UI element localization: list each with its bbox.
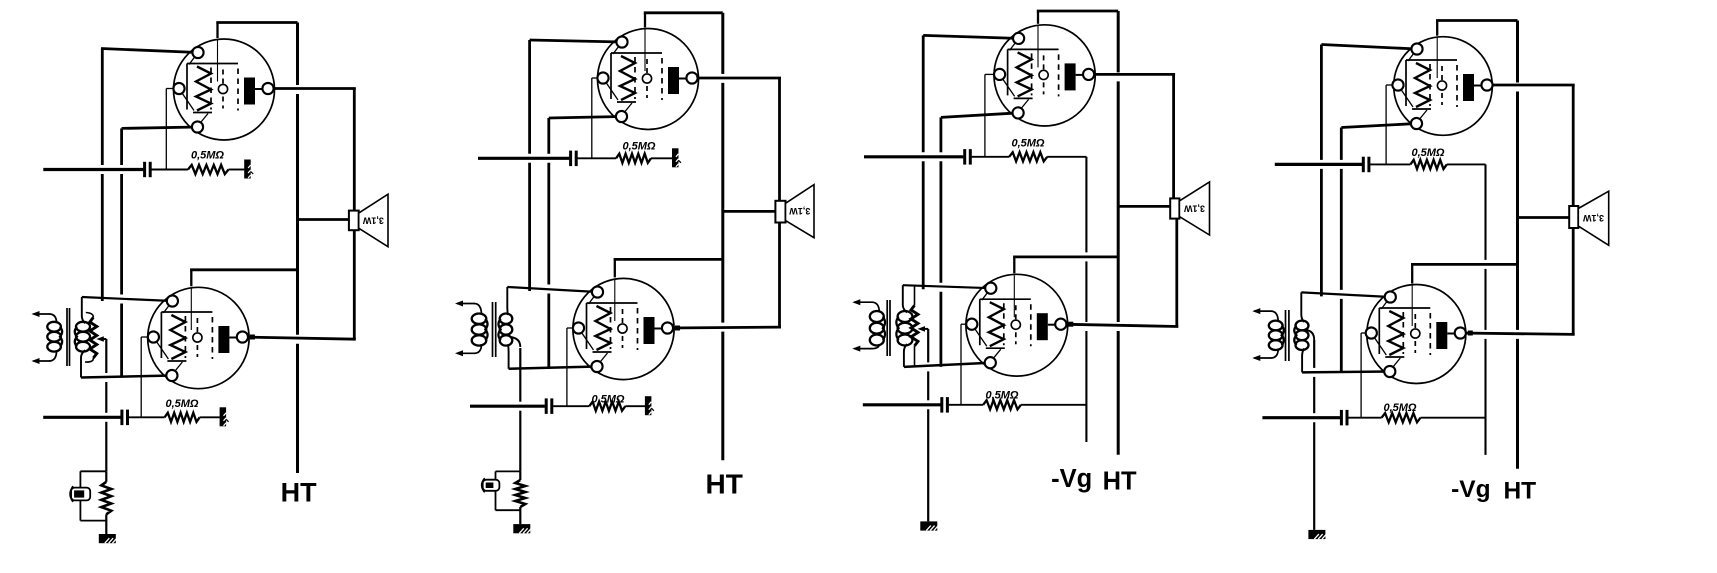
wire grid top-cap V2b to HT rail	[614, 259, 723, 277]
wire grid tap V3a	[985, 74, 1000, 156]
potentiometer wiper arrow panel 1	[96, 336, 106, 342]
label R4a value	[1411, 147, 1444, 159]
junction pad anode V2b	[675, 326, 680, 331]
svg-text:-Vg: -Vg	[1051, 465, 1092, 493]
potentiometer volume control panel 3	[911, 285, 918, 367]
transformer T2 secondary winding	[498, 314, 512, 346]
tube V4a pins	[1392, 43, 1492, 129]
resistor bias R1k	[101, 471, 111, 534]
wire grid tap V1b	[141, 337, 153, 417]
loudspeaker LS1 3,1W	[349, 194, 388, 247]
wire grid top-cap V1b to HT rail	[190, 270, 297, 287]
resistor R3a 0,5M&#937;	[1009, 152, 1047, 161]
wire grid tap V2b	[567, 328, 579, 406]
transformer T3 secondary winding	[896, 311, 912, 346]
wire to ground panel 3	[927, 329, 929, 522]
resistor R2a 0,5M&#937;	[616, 154, 651, 163]
resistor R4b 0,5M&#937;	[1382, 413, 1421, 422]
svg-text:HT: HT	[1503, 477, 1536, 504]
wire heater bottom V1a	[122, 127, 198, 128]
wire input line 1 panel 3 with coupling capacitor C3a	[864, 149, 1009, 165]
wire anode V4b	[1460, 333, 1574, 334]
chassis terminal line 2 panel 1	[220, 407, 229, 426]
resistor R3b 0,5M&#937;	[983, 400, 1021, 409]
wire secondary bottom lead T3	[904, 344, 907, 367]
wire input line 1 panel 1 with coupling capacitor C1a	[43, 162, 188, 177]
wire bias capacitor branch panel 1	[80, 471, 106, 520]
svg-text:3,1W: 3,1W	[1183, 204, 1205, 214]
ground panel 1	[99, 534, 117, 543]
wire grid tap V2a	[592, 78, 603, 158]
wire R2a to chassis	[651, 157, 672, 159]
loudspeaker LS3 3,1W	[1170, 182, 1209, 235]
chassis terminal line 1 panel 1	[244, 160, 253, 179]
svg-text:0,5MΩ: 0,5MΩ	[191, 150, 224, 162]
wire secondary tap lead T2	[510, 337, 520, 347]
wire secondary top lead T1	[82, 297, 85, 323]
wire anode V2b	[668, 326, 782, 330]
transformer T3 primary winding	[870, 311, 885, 346]
tube V2b envelope and electrodes	[573, 278, 674, 379]
label HT panel 1	[281, 477, 317, 507]
input terminal arrow top panel 4	[1252, 308, 1278, 322]
wire anode V3a	[1089, 73, 1176, 76]
tube V1a envelope and electrodes	[174, 39, 275, 140]
wire HT tap to loudspeaker panel 3	[1118, 205, 1171, 208]
tube V1b envelope and electrodes	[148, 287, 249, 388]
junction pad anode V3b	[1068, 322, 1073, 327]
svg-text:3,1W: 3,1W	[789, 206, 811, 216]
wire secondary top lead T2	[506, 287, 509, 315]
wire input line 1 panel 2 with coupling capacitor C2a	[478, 151, 616, 167]
wire heater top V3a	[923, 35, 1018, 38]
wire secondary tap lead T4	[1306, 330, 1314, 340]
wire to ground panel 2	[519, 348, 521, 471]
resistor bias R2k	[515, 471, 525, 524]
label minus Vg panel 4	[1451, 476, 1490, 503]
wire rail A panel 1	[101, 49, 104, 302]
wire heater top V4a	[1321, 45, 1417, 50]
input terminal arrow top panel 2	[455, 301, 482, 316]
wire input line 1 panel 4 with coupling capacitor C4a	[1275, 157, 1411, 173]
wire rail B panel 3	[940, 117, 943, 367]
wire grid top-cap V3b to HT rail	[1013, 257, 1118, 273]
transformer T2 primary winding	[472, 314, 488, 346]
input terminal arrow top panel 3	[852, 299, 879, 312]
tube V4b pins	[1366, 291, 1466, 377]
tube V3b envelope and electrodes	[966, 274, 1068, 376]
wire anode V2a	[692, 77, 781, 80]
wire -Vg rail panel 3	[1085, 157, 1087, 442]
transformer T4 secondary winding	[1294, 321, 1308, 350]
svg-text:0,5MΩ: 0,5MΩ	[1383, 402, 1416, 414]
input terminal arrow top panel 1	[32, 311, 57, 323]
wire heater bottom V4a	[1341, 124, 1416, 128]
wire HT rail panel 2	[721, 13, 724, 461]
label minus Vg panel 3	[1051, 465, 1092, 493]
tube V2b pins	[573, 286, 673, 372]
wire -Vg rail panel 4	[1484, 164, 1486, 455]
resistor R4a 0,5M&#937;	[1410, 160, 1446, 169]
transformer T4 core	[1286, 310, 1289, 361]
loudspeaker LS4 3,1W	[1569, 191, 1609, 245]
svg-text:HT: HT	[281, 477, 317, 507]
wire R3b to -Vg rail	[1021, 404, 1087, 406]
svg-text:HT: HT	[706, 468, 743, 499]
wire rail B panel 4	[1340, 128, 1343, 373]
label HT panel 4	[1503, 477, 1536, 504]
tube V4a envelope and electrodes	[1394, 37, 1493, 136]
transformer T1 secondary winding	[75, 322, 90, 352]
wire to ground panel 1	[105, 339, 107, 471]
wire R1a to chassis	[229, 169, 245, 171]
svg-text:3,1W: 3,1W	[1582, 213, 1604, 223]
wire rail B panel 1	[120, 128, 123, 377]
wire rail A panel 3	[922, 35, 925, 289]
wire secondary bottom lead T1	[81, 350, 85, 377]
junction pad anode V4b	[1468, 331, 1473, 336]
wire input line 2 panel 1 with coupling capacitor C1b	[43, 410, 164, 426]
resistor R1b 0,5M&#937;	[165, 413, 200, 422]
tube V3a envelope and electrodes	[994, 25, 1095, 126]
svg-text:0,5MΩ: 0,5MΩ	[591, 393, 624, 405]
wire heater bottom V3a	[941, 113, 1018, 118]
wire grid top-cap V1a to HT rail	[216, 23, 297, 39]
wire rail B panel 2	[547, 118, 550, 369]
svg-text:-Vg: -Vg	[1451, 476, 1490, 503]
wire grid tap V4a	[1386, 85, 1398, 164]
wire grid tap V3b	[961, 324, 972, 405]
tube V2a envelope and electrodes	[598, 29, 699, 130]
wire input line 2 panel 3 with coupling capacitor C3b	[863, 397, 983, 413]
wire grid tap V1a	[166, 89, 179, 170]
input terminal arrow bottom panel 3	[852, 344, 879, 352]
label R2b value	[591, 393, 624, 405]
transformer T3 core	[887, 300, 890, 356]
label R3b value	[985, 389, 1018, 401]
label R4b value	[1383, 402, 1416, 414]
wire grid input V1b	[82, 297, 173, 301]
transformer T1 primary winding	[47, 322, 62, 352]
wire R3a to -Vg rail	[1047, 156, 1086, 158]
tube V4b envelope and electrodes	[1367, 285, 1466, 384]
svg-text:0,5MΩ: 0,5MΩ	[622, 141, 655, 153]
wire loudspeaker column panel 2	[778, 78, 781, 327]
svg-text:0,5MΩ: 0,5MΩ	[1411, 147, 1444, 159]
resistor R1a 0,5M&#937;	[188, 165, 229, 174]
wire input line 2 panel 2 with coupling capacitor C2b	[470, 398, 589, 414]
capacitor bias C1k	[70, 486, 90, 502]
potentiometer volume control panel 1	[85, 313, 97, 363]
wire heater top V1a	[101, 49, 198, 53]
chassis terminal line 1 panel 2	[672, 148, 681, 167]
wire loudspeaker column panel 3	[1174, 74, 1177, 326]
wire grid tap V4b	[1361, 333, 1371, 418]
wire HT tap to loudspeaker panel 4	[1518, 216, 1571, 219]
label R2a value	[622, 141, 655, 153]
wire heater bottom V2a	[549, 117, 622, 119]
junction pad anode V1b	[250, 335, 255, 340]
wire R2b to chassis	[625, 405, 645, 407]
svg-text:0,5MΩ: 0,5MΩ	[1011, 138, 1044, 150]
wire grid top-cap V2a to HT rail	[644, 13, 723, 28]
wire rail A panel 4	[1320, 45, 1323, 297]
label R1b value	[165, 398, 198, 410]
wire grid input V2b	[507, 287, 597, 292]
wire loudspeaker column panel 1	[353, 89, 356, 340]
wire grid input V4b	[1301, 292, 1390, 297]
input terminal arrow bottom panel 1	[32, 350, 57, 364]
chassis terminal line 2 panel 2	[645, 396, 654, 415]
wire cathode return V1b	[81, 376, 172, 378]
wire heater top V2a	[530, 40, 622, 42]
wire anode V4a	[1487, 84, 1575, 87]
wire HT rail panel 1	[296, 23, 299, 474]
loudspeaker LS2 3,1W	[775, 185, 814, 238]
resistor R2b 0,5M&#937;	[589, 402, 625, 411]
wire grid top-cap V4b to HT rail	[1411, 264, 1518, 283]
wire anode V1b	[242, 337, 355, 339]
tube V1a pins	[173, 47, 273, 133]
wire R4b to -Vg rail	[1421, 417, 1486, 419]
wire HT rail panel 4	[1516, 21, 1519, 469]
tube V3b pins	[966, 283, 1066, 369]
label R3a value	[1011, 138, 1044, 150]
wire anode V3b	[1061, 324, 1179, 326]
wire bias capacitor branch panel 2	[496, 471, 521, 510]
transformer T1 core	[67, 308, 70, 366]
wire secondary bottom lead T4	[1302, 349, 1304, 373]
wire secondary top lead T4	[1301, 292, 1304, 322]
wire to ground panel 4	[1313, 340, 1315, 530]
wire secondary bottom lead T2	[507, 344, 510, 369]
tube V3a pins	[994, 33, 1094, 119]
wire secondary top lead T3	[903, 285, 907, 312]
wire rail A panel 2	[528, 40, 531, 291]
svg-text:0,5MΩ: 0,5MΩ	[985, 389, 1018, 401]
wire cathode return V3b	[904, 363, 990, 367]
wire HT tap to loudspeaker panel 1	[298, 218, 350, 221]
ground panel 3	[920, 521, 938, 530]
label R1a value	[191, 150, 224, 162]
potentiometer wiper arrow panel 3	[918, 326, 929, 332]
wire grid top-cap V3a to HT rail	[1037, 11, 1118, 24]
wire HT rail panel 3	[1117, 11, 1120, 455]
wire grid input V3b	[903, 285, 991, 288]
svg-text:0,5MΩ: 0,5MΩ	[165, 398, 198, 410]
tube V2a pins	[597, 36, 697, 122]
wire input line 2 panel 4 with coupling capacitor C4b	[1262, 410, 1381, 426]
label HT panel 3	[1103, 467, 1137, 495]
wire R4a to -Vg rail	[1447, 163, 1486, 165]
svg-text:3,1W: 3,1W	[362, 215, 384, 225]
transformer T2 core	[493, 302, 496, 357]
input terminal arrow bottom panel 4	[1252, 349, 1278, 362]
wire cathode return V4b	[1302, 370, 1390, 373]
wire R1b to chassis	[200, 416, 220, 418]
wire loudspeaker column panel 4	[1572, 85, 1575, 334]
svg-text:HT: HT	[1103, 467, 1137, 495]
wire grid top-cap V4a to HT rail	[1436, 21, 1518, 36]
tube V1b pins	[148, 295, 248, 381]
wire HT tap to loudspeaker panel 2	[723, 210, 777, 213]
ground panel 4	[1308, 530, 1326, 539]
label HT panel 2	[706, 468, 743, 499]
wire anode V1a	[268, 87, 356, 90]
ground panel 2	[513, 524, 531, 533]
transformer T4 primary winding	[1269, 321, 1284, 350]
input terminal arrow bottom panel 2	[455, 344, 482, 356]
wire cathode return V2b	[509, 367, 597, 369]
capacitor bias C2k	[482, 478, 500, 492]
